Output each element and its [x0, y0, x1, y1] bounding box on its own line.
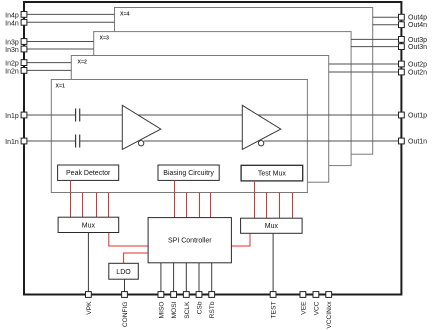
svg-text:Out4p: Out4p	[408, 15, 427, 22]
wire In1p cap to amp A1	[80, 114, 123, 116]
svg-text:In3p: In3p	[5, 40, 19, 47]
pin Out2n	[399, 69, 405, 75]
wire Out4n	[373, 24, 402, 26]
svg-text:TEST: TEST	[271, 302, 278, 319]
red wire SPI Controller to Mux2	[231, 233, 250, 246]
svg-text:In3n: In3n	[5, 47, 19, 54]
svg-text:X=4: X=4	[120, 12, 129, 18]
red wire ch2 peak to Mux1	[82, 193, 84, 218]
pin CONFIG	[122, 292, 128, 298]
wire Out3n	[351, 46, 401, 48]
pin RSTb	[209, 292, 215, 298]
svg-text:X=2: X=2	[78, 60, 87, 66]
svg-text:In1p: In1p	[5, 113, 19, 120]
svg-text:SCLK: SCLK	[184, 301, 191, 319]
Test Mux block	[241, 165, 303, 181]
pin MOSI	[171, 292, 177, 298]
pin Out1p	[399, 112, 405, 118]
wire In1n to coupling cap	[24, 140, 76, 142]
pin VEE	[300, 292, 306, 298]
svg-text:Mux: Mux	[82, 222, 96, 229]
wire A2 n-output to Out1n pin	[264, 140, 402, 142]
svg-text:Out1n: Out1n	[408, 138, 427, 145]
pin CSb	[196, 292, 202, 298]
Mux1 block	[58, 217, 119, 232]
pin In3p	[21, 39, 27, 45]
pin In4p	[21, 12, 27, 18]
wire A1 n-output to amp A2	[144, 140, 243, 142]
svg-text:VCC: VCC	[313, 301, 320, 315]
channel box X=3	[94, 32, 351, 166]
red wire Peak Detector to Mux1	[70, 180, 72, 217]
pin Out3p	[399, 37, 405, 43]
wire Mux1 to VPK pin	[87, 233, 89, 295]
svg-text:In4p: In4p	[5, 13, 19, 20]
svg-text:In1n: In1n	[5, 139, 19, 146]
pin In2n	[21, 68, 27, 74]
wire In3n	[24, 48, 94, 50]
capacitor C1 (In1p line)	[76, 109, 80, 122]
wire SPI to CSb pin	[198, 263, 200, 295]
svg-text:VEE: VEE	[300, 301, 307, 315]
svg-text:X=1: X=1	[56, 84, 65, 90]
wire Out4p	[373, 16, 402, 18]
red wire ch2 bias to SPI	[186, 193, 188, 218]
red wire ch3 peak to Mux1	[96, 193, 98, 218]
red wire ch2 test to Mux2	[266, 192, 268, 218]
wire Out2p	[329, 63, 402, 65]
red wire ch3 test to Mux2	[279, 192, 281, 218]
amplifier A2	[242, 105, 280, 149]
svg-text:Out4n: Out4n	[408, 22, 427, 29]
svg-text:Peak Detector: Peak Detector	[66, 170, 111, 177]
wire LDO to CONFIG pin	[124, 279, 126, 294]
red wire ch4 peak to Mux1	[108, 193, 110, 218]
svg-text:X=3: X=3	[100, 36, 109, 42]
amplifier A1	[122, 105, 161, 149]
svg-text:Out2p: Out2p	[408, 61, 427, 68]
pin In1p	[21, 112, 27, 118]
pin TEST	[270, 292, 276, 298]
pin Out3n	[399, 44, 405, 50]
svg-text:VCCINxx: VCCINxx	[326, 301, 333, 329]
channel box X=2	[71, 56, 328, 183]
pin VCC	[313, 292, 319, 298]
svg-text:Biasing Circuitry: Biasing Circuitry	[163, 170, 214, 177]
svg-text:MISO: MISO	[158, 302, 165, 319]
svg-text:Out2n: Out2n	[408, 69, 427, 76]
pin Out4n	[399, 22, 405, 28]
wire Mux2 to TEST pin	[272, 233, 274, 294]
svg-text:Out1p: Out1p	[408, 112, 427, 119]
svg-text:Out3n: Out3n	[408, 44, 427, 51]
wire SPI to RSTb pin	[211, 263, 213, 295]
pin MISO	[158, 292, 164, 298]
red wire Biasing to SPI	[174, 180, 176, 217]
red wire ch3 bias to SPI	[199, 193, 201, 218]
wire In1p to coupling cap	[24, 114, 76, 116]
amplifier A2 inverting bubble	[258, 141, 263, 146]
svg-text:Mux: Mux	[265, 223, 279, 230]
wire SPI to MISO pin	[160, 263, 162, 295]
pin Out1n	[399, 138, 405, 144]
wire In1n cap to amp A1	[80, 140, 123, 142]
wire Out2n	[329, 71, 402, 73]
svg-text:In4n: In4n	[5, 20, 19, 27]
svg-text:SPI Controller: SPI Controller	[168, 238, 212, 245]
pin In1n	[21, 138, 27, 144]
red wire Mux1 to SPI Controller	[109, 233, 148, 247]
wire A2 p-output to Out1p pin	[258, 114, 401, 116]
svg-text:CONFIG: CONFIG	[122, 302, 129, 328]
svg-text:In2n: In2n	[5, 69, 19, 76]
red wire ch4 bias to SPI	[210, 193, 212, 218]
channel box X=4	[115, 8, 373, 155]
wire A1 p-output to amp A2	[138, 114, 242, 116]
svg-text:RSTb: RSTb	[209, 301, 216, 318]
svg-text:LDO: LDO	[116, 269, 131, 276]
wire SPI to SCLK pin	[185, 263, 187, 295]
pin Out4p	[399, 14, 405, 20]
pin Out2p	[399, 61, 405, 67]
svg-text:Out3p: Out3p	[408, 37, 427, 44]
chip outer boundary	[24, 2, 401, 295]
wire In4p	[24, 13, 115, 15]
pin SCLK	[183, 292, 189, 298]
svg-text:Test Mux: Test Mux	[258, 171, 287, 178]
wire In4n	[24, 21, 115, 23]
wire SPI to MOSI pin	[173, 263, 175, 295]
pin In4n	[21, 19, 27, 25]
capacitor C2 (In1n line)	[76, 135, 80, 148]
red wire ch4 test to Mux2	[292, 192, 294, 218]
pin VCCINxx	[326, 292, 332, 298]
pin In3n	[21, 46, 27, 52]
wire In2p	[24, 62, 71, 64]
pin In2p	[21, 60, 27, 66]
wire Out3p	[351, 38, 401, 40]
svg-text:VPK: VPK	[86, 301, 93, 315]
SPI Controller block	[148, 218, 231, 263]
wire In3p	[24, 41, 94, 43]
Peak Detector block	[58, 165, 119, 180]
red wire SPI Controller to LDO	[124, 253, 149, 263]
svg-text:In2p: In2p	[5, 61, 19, 68]
channel box X=1	[51, 80, 307, 193]
pin VPK	[86, 292, 92, 298]
Mux2 block	[241, 218, 303, 233]
red wire Test Mux to Mux2	[254, 181, 256, 218]
wire In2n	[24, 69, 71, 71]
svg-text:CSb: CSb	[197, 301, 204, 314]
LDO block	[109, 263, 139, 279]
amplifier A1 inverting bubble	[138, 141, 143, 146]
svg-text:MOSI: MOSI	[171, 301, 178, 318]
Biasing Circuitry block	[158, 165, 219, 180]
